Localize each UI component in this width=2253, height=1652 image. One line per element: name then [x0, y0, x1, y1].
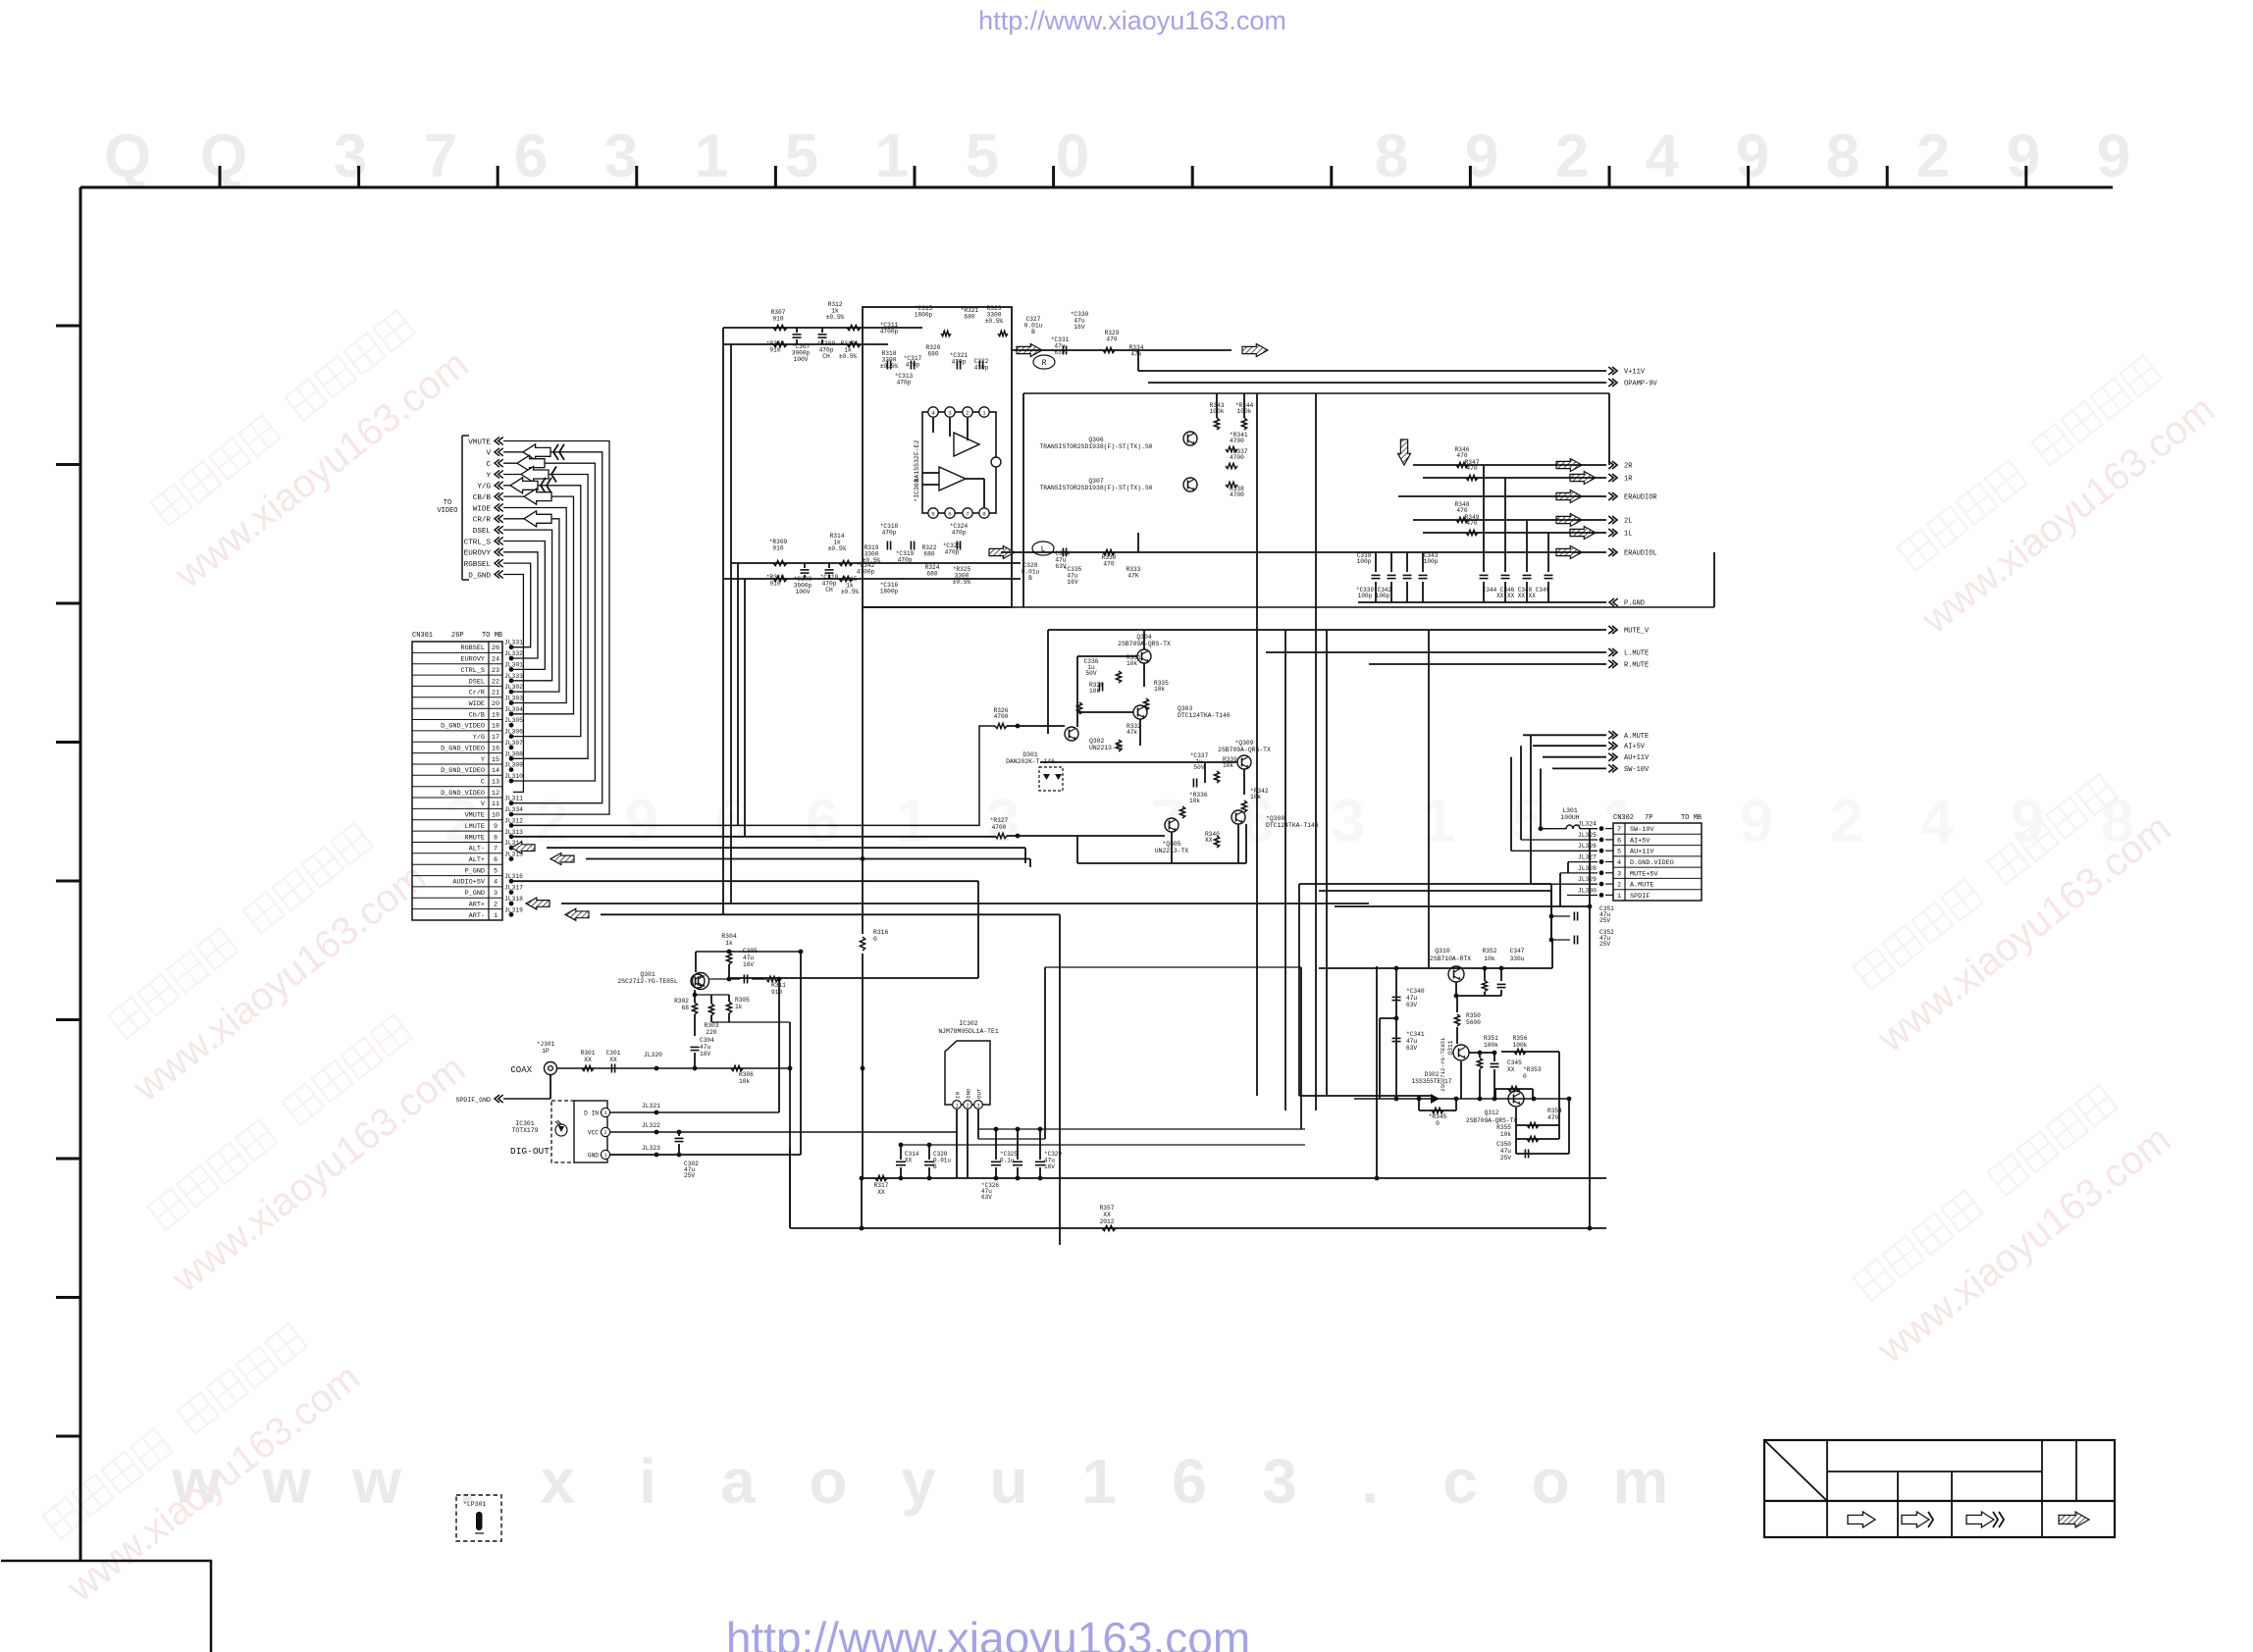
- svg-text:8: 8: [494, 834, 498, 842]
- svg-text:JL304: JL304: [504, 706, 523, 713]
- svg-text:R356: R356: [1513, 1035, 1528, 1042]
- svg-text:JL322: JL322: [642, 1122, 660, 1129]
- svg-text:Cb/B: Cb/B: [469, 711, 485, 719]
- svg-text:RGBSEL: RGBSEL: [461, 645, 485, 652]
- svg-text:1: 1: [982, 409, 986, 416]
- svg-text:NJM78M05DL1A-TE1: NJM78M05DL1A-TE1: [938, 1028, 999, 1035]
- svg-text:D IN: D IN: [584, 1110, 599, 1117]
- svg-text:XX: XX: [905, 1157, 913, 1163]
- svg-text:*R353: *R353: [1523, 1066, 1542, 1073]
- svg-text:WIDE: WIDE: [473, 505, 492, 513]
- svg-text:JL328: JL328: [1578, 865, 1597, 872]
- svg-text:6: 6: [715, 788, 749, 855]
- svg-text:L301: L301: [1562, 807, 1578, 814]
- svg-text:470p: 470p: [952, 358, 967, 365]
- svg-text:CN302: CN302: [1613, 814, 1634, 822]
- svg-text:Q307: Q307: [1088, 478, 1104, 485]
- svg-text:1: 1: [1617, 893, 1621, 901]
- svg-text:10k: 10k: [1484, 955, 1494, 962]
- svg-text:IC302: IC302: [959, 1020, 977, 1027]
- svg-text:VMUTE: VMUTE: [465, 812, 485, 820]
- svg-text:470: 470: [1466, 465, 1477, 472]
- svg-text:0: 0: [1523, 1073, 1527, 1080]
- svg-text:2SB709A-QRS-TX: 2SB709A-QRS-TX: [1466, 1117, 1517, 1124]
- svg-text:Q312: Q312: [1485, 1110, 1499, 1116]
- svg-text:5: 5: [494, 867, 498, 875]
- svg-text:JL320: JL320: [644, 1052, 662, 1058]
- svg-text:AI+5V: AI+5V: [1630, 837, 1650, 845]
- svg-text:2: 2: [1916, 123, 1950, 190]
- svg-text:JL313: JL313: [504, 829, 523, 836]
- svg-text:JL331: JL331: [504, 640, 523, 646]
- svg-text:1L: 1L: [1624, 531, 1632, 539]
- svg-text:TO MB: TO MB: [482, 632, 502, 640]
- svg-text:16V: 16V: [1067, 579, 1077, 586]
- svg-text:C304: C304: [700, 1037, 714, 1044]
- svg-text:5: 5: [966, 123, 999, 190]
- svg-text:CN301: CN301: [412, 632, 433, 640]
- svg-text:XX: XX: [1507, 1066, 1515, 1073]
- svg-text:2R: 2R: [1624, 463, 1633, 471]
- svg-text:GND: GND: [588, 1153, 599, 1160]
- svg-text:7: 7: [966, 510, 969, 517]
- svg-text:63V: 63V: [1406, 1045, 1417, 1052]
- svg-text:4700: 4700: [1230, 438, 1244, 444]
- svg-text:47u: 47u: [700, 1044, 710, 1051]
- svg-text:19: 19: [492, 711, 499, 719]
- svg-text:CTRL_S: CTRL_S: [461, 667, 485, 675]
- svg-text:x: x: [540, 1446, 575, 1517]
- svg-text:JL319: JL319: [504, 906, 523, 913]
- svg-text:R301: R301: [581, 1050, 596, 1057]
- svg-text:7P: 7P: [1645, 814, 1652, 822]
- svg-text:±0.5%: ±0.5%: [839, 353, 858, 360]
- svg-text:470p: 470p: [974, 364, 989, 371]
- svg-text:o: o: [809, 1446, 847, 1517]
- svg-text:8: 8: [1375, 123, 1408, 190]
- svg-text:JL325: JL325: [1578, 832, 1597, 839]
- svg-text:R: R: [1042, 359, 1047, 368]
- svg-text:22: 22: [492, 678, 499, 686]
- svg-text:BA15532F-E2: BA15532F-E2: [914, 439, 920, 482]
- svg-text:TO: TO: [444, 499, 451, 507]
- svg-text:c: c: [1442, 1446, 1478, 1517]
- svg-text:XX: XX: [584, 1057, 592, 1063]
- svg-text:16V: 16V: [1044, 1163, 1055, 1170]
- svg-text:2: 2: [966, 1104, 969, 1110]
- svg-text:9: 9: [1740, 788, 1773, 855]
- svg-text:V: V: [486, 450, 491, 458]
- svg-text:3: 3: [1262, 1446, 1297, 1517]
- svg-text:C: C: [481, 779, 485, 787]
- svg-text:1: 1: [494, 912, 498, 920]
- svg-text:C350: C350: [1496, 1141, 1511, 1148]
- svg-text:JL327: JL327: [1578, 854, 1597, 861]
- svg-text:100p: 100p: [1424, 558, 1439, 565]
- svg-text:47k: 47k: [1130, 350, 1141, 357]
- svg-text:Q306: Q306: [1088, 437, 1104, 443]
- svg-text:XX: XX: [877, 1189, 885, 1196]
- svg-text:WIDE: WIDE: [469, 700, 485, 708]
- svg-text:JL326: JL326: [1578, 843, 1597, 850]
- svg-text:100p 100p: 100p 100p: [1358, 593, 1390, 599]
- svg-text:2: 2: [1555, 123, 1589, 190]
- svg-text:ART-: ART-: [469, 912, 485, 920]
- svg-text:2: 2: [535, 788, 568, 855]
- svg-text:D302: D302: [1425, 1071, 1440, 1078]
- svg-text:*IC303: *IC303: [914, 479, 920, 502]
- svg-text:10k: 10k: [1126, 660, 1137, 667]
- svg-text:1: 1: [1081, 1446, 1117, 1517]
- svg-text:470: 470: [1103, 560, 1114, 567]
- svg-text:http://www.xiaoyu163.com: http://www.xiaoyu163.com: [978, 6, 1286, 35]
- svg-text:±0.5%: ±0.5%: [828, 545, 847, 552]
- svg-text:P_GND: P_GND: [465, 890, 485, 898]
- svg-text:D_GND_VIDEO: D_GND_VIDEO: [441, 745, 485, 752]
- svg-text:JL306: JL306: [504, 729, 523, 736]
- svg-text:AU+11V: AU+11V: [1624, 754, 1650, 762]
- svg-text:8: 8: [1826, 123, 1860, 190]
- svg-text:±0.5%: ±0.5%: [880, 363, 899, 370]
- svg-text:XX: XX: [609, 1057, 617, 1063]
- svg-text:TRANSISTOR2SD1938(F)-ST(TX).S0: TRANSISTOR2SD1938(F)-ST(TX).S0: [1039, 443, 1152, 450]
- svg-text:COAX: COAX: [510, 1065, 532, 1075]
- svg-text:y: y: [901, 1446, 936, 1517]
- svg-text:JL323: JL323: [642, 1145, 660, 1152]
- svg-text:16V: 16V: [1074, 324, 1084, 331]
- svg-text:Q311: Q311: [1447, 1040, 1454, 1055]
- svg-text:CTRL_S: CTRL_S: [464, 539, 492, 546]
- svg-text:10k: 10k: [1250, 794, 1261, 800]
- svg-text:680: 680: [926, 570, 937, 577]
- svg-text:JL332: JL332: [504, 650, 523, 657]
- svg-text:470p: 470p: [906, 361, 920, 368]
- svg-text:9: 9: [1736, 123, 1769, 190]
- svg-text:XX: XX: [1103, 1212, 1111, 1218]
- svg-text:AUDIO+5V: AUDIO+5V: [452, 879, 486, 887]
- svg-text:C: C: [486, 461, 491, 469]
- svg-text:EUROVY: EUROVY: [461, 656, 485, 664]
- svg-text:±0.5%: ±0.5%: [841, 589, 860, 595]
- svg-text:50V: 50V: [1085, 670, 1096, 677]
- svg-text:Y/G: Y/G: [477, 484, 491, 491]
- svg-text:9: 9: [2007, 123, 2040, 190]
- svg-text:0: 0: [1436, 1120, 1440, 1127]
- svg-text:2SC2712-YG-TE85L: 2SC2712-YG-TE85L: [617, 978, 678, 985]
- svg-text:4: 4: [1646, 123, 1680, 190]
- svg-text:R303: R303: [705, 1022, 719, 1029]
- svg-text:Q302: Q302: [1089, 738, 1105, 745]
- svg-text:DSEL: DSEL: [473, 528, 492, 536]
- svg-text:3: 3: [948, 409, 952, 416]
- svg-text:A.MUTE: A.MUTE: [1630, 882, 1653, 890]
- svg-text:6: 6: [514, 123, 548, 190]
- svg-text:10k: 10k: [1189, 798, 1200, 804]
- svg-text:TO MB: TO MB: [1681, 814, 1702, 822]
- svg-text:http://www.xiaoyu163.com: http://www.xiaoyu163.com: [726, 1613, 1250, 1652]
- svg-text:Q301: Q301: [640, 971, 655, 978]
- svg-text:P_GND: P_GND: [465, 867, 485, 875]
- svg-text:R305: R305: [735, 997, 750, 1004]
- svg-text:JL318: JL318: [504, 896, 523, 903]
- svg-text:470p: 470p: [952, 529, 967, 536]
- svg-text:JL302: JL302: [504, 684, 523, 691]
- svg-text:470p: 470p: [897, 379, 912, 386]
- svg-text:100V: 100V: [796, 589, 811, 595]
- svg-text:680: 680: [927, 350, 938, 357]
- svg-text:D_GND_VIDEO: D_GND_VIDEO: [441, 790, 485, 798]
- svg-text:9: 9: [625, 788, 658, 855]
- svg-text:Q: Q: [104, 123, 151, 190]
- svg-text:JL310: JL310: [504, 773, 523, 780]
- svg-text:R350: R350: [1466, 1012, 1481, 1019]
- svg-text:R352: R352: [1483, 948, 1497, 955]
- svg-text:100V: 100V: [794, 356, 809, 363]
- svg-text:.: .: [1361, 1446, 1379, 1517]
- svg-text:9: 9: [494, 823, 498, 831]
- svg-text:TOTX179: TOTX179: [512, 1127, 539, 1134]
- svg-text:JL312: JL312: [504, 817, 523, 824]
- svg-text:u: u: [989, 1446, 1027, 1517]
- svg-text:47u: 47u: [1406, 995, 1417, 1002]
- svg-text:C345: C345: [1507, 1059, 1522, 1066]
- svg-text:470p: 470p: [882, 529, 897, 536]
- svg-text:5600: 5600: [1466, 1019, 1481, 1026]
- svg-text:47K: 47K: [1127, 572, 1138, 579]
- svg-text:RGBSEL: RGBSEL: [464, 561, 492, 569]
- svg-text:2SB709A-QRS-TX: 2SB709A-QRS-TX: [1218, 747, 1271, 753]
- svg-text:*R327: *R327: [990, 817, 1009, 824]
- svg-text:1: 1: [955, 1104, 958, 1110]
- svg-text:Q: Q: [200, 123, 247, 190]
- svg-text:9: 9: [2097, 123, 2130, 190]
- svg-text:0: 0: [1056, 123, 1089, 190]
- svg-text:4700: 4700: [1230, 491, 1244, 498]
- svg-text:JL334: JL334: [504, 806, 523, 813]
- svg-text:4: 4: [494, 879, 498, 887]
- svg-text:50V: 50V: [1193, 764, 1204, 771]
- svg-text:10k: 10k: [739, 1078, 750, 1085]
- svg-text:DSEL: DSEL: [469, 678, 485, 686]
- svg-text:±0.5%: ±0.5%: [985, 318, 1004, 325]
- svg-text:XX XX XX XX: XX XX XX XX: [1496, 593, 1536, 599]
- svg-text:4: 4: [1920, 788, 1955, 855]
- svg-text:2: 2: [966, 409, 969, 416]
- svg-text:JL329: JL329: [1578, 876, 1597, 883]
- svg-text:5: 5: [1617, 849, 1621, 856]
- svg-text:910: 910: [771, 989, 782, 996]
- svg-text:R355: R355: [1496, 1124, 1511, 1131]
- svg-text:R316: R316: [873, 929, 889, 936]
- svg-text:100p: 100p: [1357, 558, 1372, 565]
- svg-text:6: 6: [1172, 1446, 1207, 1517]
- svg-text:R357: R357: [1100, 1205, 1115, 1212]
- svg-text:R317: R317: [874, 1182, 889, 1189]
- svg-text:4700p: 4700p: [880, 328, 899, 335]
- svg-text:R306: R306: [739, 1071, 754, 1078]
- svg-text:JL321: JL321: [642, 1103, 660, 1110]
- svg-text:20: 20: [492, 700, 499, 708]
- svg-text:*J301: *J301: [537, 1041, 555, 1048]
- svg-text:7: 7: [494, 846, 498, 853]
- svg-text:1P: 1P: [542, 1048, 550, 1055]
- svg-text:4700p: 4700p: [857, 568, 875, 575]
- svg-text:VMUTE: VMUTE: [468, 439, 491, 446]
- svg-text:o: o: [1531, 1446, 1569, 1517]
- svg-text:12: 12: [492, 790, 499, 798]
- svg-text:18: 18: [492, 723, 499, 731]
- svg-text:13: 13: [492, 779, 499, 787]
- svg-text:B: B: [1028, 575, 1032, 582]
- svg-text:2: 2: [494, 902, 498, 909]
- svg-text:Q303: Q303: [1178, 705, 1193, 712]
- svg-text:25V: 25V: [1599, 941, 1610, 948]
- svg-text:JL316: JL316: [504, 873, 523, 880]
- svg-text:16V: 16V: [700, 1051, 710, 1058]
- svg-text:2: 2: [1617, 882, 1621, 890]
- svg-text:330u: 330u: [1510, 955, 1525, 962]
- svg-text:w: w: [351, 1446, 401, 1517]
- svg-text:JL330: JL330: [1578, 887, 1597, 894]
- svg-text:CH: CH: [825, 587, 833, 594]
- svg-text:4700: 4700: [1230, 454, 1244, 461]
- svg-text:Y: Y: [486, 472, 491, 480]
- svg-text:R311: R311: [771, 982, 786, 989]
- svg-text:AI+5V: AI+5V: [1624, 744, 1646, 751]
- svg-text:IC301: IC301: [515, 1120, 534, 1127]
- svg-text:5: 5: [931, 510, 935, 517]
- svg-text:47k: 47k: [1126, 729, 1137, 736]
- svg-text:*C341: *C341: [1406, 1031, 1425, 1038]
- svg-text:DTC124TKA-T146: DTC124TKA-T146: [1178, 712, 1231, 719]
- svg-text:JL301: JL301: [504, 661, 523, 668]
- svg-text:SW-10V: SW-10V: [1624, 766, 1650, 774]
- svg-text:680: 680: [923, 550, 934, 557]
- svg-text:3: 3: [334, 123, 367, 190]
- svg-text:JL307: JL307: [504, 740, 523, 747]
- svg-text:25V: 25V: [684, 1172, 695, 1179]
- svg-text:10k: 10k: [1500, 1131, 1511, 1138]
- svg-text:1: 1: [603, 1153, 606, 1159]
- svg-text:470: 470: [1106, 336, 1117, 342]
- svg-text:6: 6: [806, 788, 839, 855]
- svg-text:2SB710A-RTX: 2SB710A-RTX: [1430, 955, 1471, 962]
- svg-text:1SS355TE-17: 1SS355TE-17: [1412, 1078, 1452, 1085]
- svg-text:D.GND.VIDEO: D.GND.VIDEO: [1630, 859, 1674, 867]
- svg-text:1800p: 1800p: [880, 588, 899, 594]
- svg-text:47u: 47u: [1500, 1148, 1511, 1155]
- svg-text:RMUTE: RMUTE: [465, 834, 485, 842]
- svg-text:910: 910: [772, 315, 783, 322]
- svg-text:68: 68: [682, 1005, 690, 1011]
- svg-text:1k: 1k: [725, 940, 733, 947]
- svg-text:JL308: JL308: [504, 750, 523, 757]
- svg-text:JL303: JL303: [504, 696, 523, 702]
- svg-text:1: 1: [695, 123, 728, 190]
- svg-text:2012: 2012: [1100, 1218, 1115, 1225]
- svg-text:470: 470: [1466, 520, 1477, 527]
- svg-text:LMUTE: LMUTE: [465, 823, 485, 831]
- svg-text:R.MUTE: R.MUTE: [1624, 662, 1649, 670]
- svg-text:Y/G: Y/G: [473, 734, 485, 742]
- svg-text:6: 6: [948, 510, 952, 517]
- svg-text:Q310: Q310: [1435, 948, 1450, 955]
- svg-text:m: m: [1613, 1446, 1669, 1517]
- svg-text:63V: 63V: [981, 1194, 992, 1201]
- svg-text:D_GND_VIDEO: D_GND_VIDEO: [441, 723, 485, 731]
- svg-text:B: B: [1031, 329, 1035, 336]
- svg-text:VIDEO: VIDEO: [437, 507, 457, 515]
- svg-text:JL311: JL311: [504, 796, 523, 802]
- svg-text:3: 3: [603, 1110, 606, 1116]
- svg-text:*C340: *C340: [1406, 988, 1425, 995]
- svg-text:JL317: JL317: [504, 885, 523, 892]
- svg-text:i: i: [639, 1446, 656, 1517]
- svg-text:CB/B: CB/B: [473, 494, 492, 502]
- svg-text:AU+11V: AU+11V: [1630, 849, 1654, 856]
- svg-text:Cr/R: Cr/R: [469, 690, 485, 697]
- svg-text:SW-10V: SW-10V: [1630, 826, 1654, 834]
- svg-text:3: 3: [494, 890, 498, 898]
- svg-text:CH: CH: [822, 353, 830, 360]
- svg-text:3: 3: [1617, 870, 1621, 878]
- svg-text:R304: R304: [721, 933, 737, 940]
- svg-text:OPAMP-9V: OPAMP-9V: [1624, 381, 1657, 388]
- svg-text:SPDIF_GND: SPDIF_GND: [455, 1097, 491, 1104]
- svg-text:1: 1: [1422, 788, 1455, 855]
- svg-text:47u: 47u: [1406, 1038, 1417, 1045]
- svg-text:GND: GND: [965, 1088, 971, 1099]
- svg-text:21: 21: [492, 690, 499, 697]
- svg-text:4700: 4700: [992, 824, 1007, 831]
- svg-text:*LP301: *LP301: [463, 1501, 487, 1508]
- svg-text:16: 16: [492, 745, 499, 752]
- svg-text:L.MUTE: L.MUTE: [1624, 650, 1649, 658]
- svg-text:ALT+: ALT+: [469, 856, 485, 864]
- svg-text:C347: C347: [1510, 948, 1525, 955]
- svg-text:680: 680: [964, 313, 974, 320]
- svg-text:0.1u: 0.1u: [1000, 1157, 1015, 1163]
- svg-text:910: 910: [772, 544, 783, 551]
- svg-text:JL309: JL309: [504, 762, 523, 769]
- svg-text:26P: 26P: [451, 632, 464, 640]
- svg-text:OUT: OUT: [975, 1088, 982, 1099]
- svg-text:4: 4: [931, 409, 935, 416]
- svg-text:7: 7: [1617, 826, 1621, 834]
- svg-text:2: 2: [603, 1130, 606, 1136]
- svg-text:1: 1: [896, 788, 929, 855]
- svg-text:4: 4: [1617, 859, 1621, 867]
- svg-text:A.MUTE: A.MUTE: [1624, 733, 1649, 741]
- svg-text:14: 14: [492, 767, 499, 775]
- svg-text:R302: R302: [674, 998, 689, 1005]
- svg-text:ART+: ART+: [469, 902, 485, 909]
- svg-text:3: 3: [604, 123, 638, 190]
- svg-text:TRANSISTOR2SD1938(F)-ST(TX).S0: TRANSISTOR2SD1938(F)-ST(TX).S0: [1039, 485, 1152, 491]
- svg-text:1k: 1k: [735, 1004, 743, 1010]
- svg-text:3: 3: [1332, 788, 1365, 855]
- svg-text:220: 220: [706, 1029, 716, 1036]
- svg-text:MUTE_V: MUTE_V: [1624, 628, 1650, 636]
- svg-text:±0.5%: ±0.5%: [826, 314, 845, 321]
- svg-text:2: 2: [1830, 788, 1863, 855]
- svg-text:C301: C301: [606, 1050, 621, 1057]
- svg-text:10: 10: [492, 812, 499, 820]
- svg-text:6: 6: [1617, 837, 1621, 845]
- svg-text:SPDIF: SPDIF: [1630, 893, 1650, 901]
- svg-text:10k: 10k: [1154, 686, 1165, 693]
- svg-text:ALT-: ALT-: [469, 846, 485, 853]
